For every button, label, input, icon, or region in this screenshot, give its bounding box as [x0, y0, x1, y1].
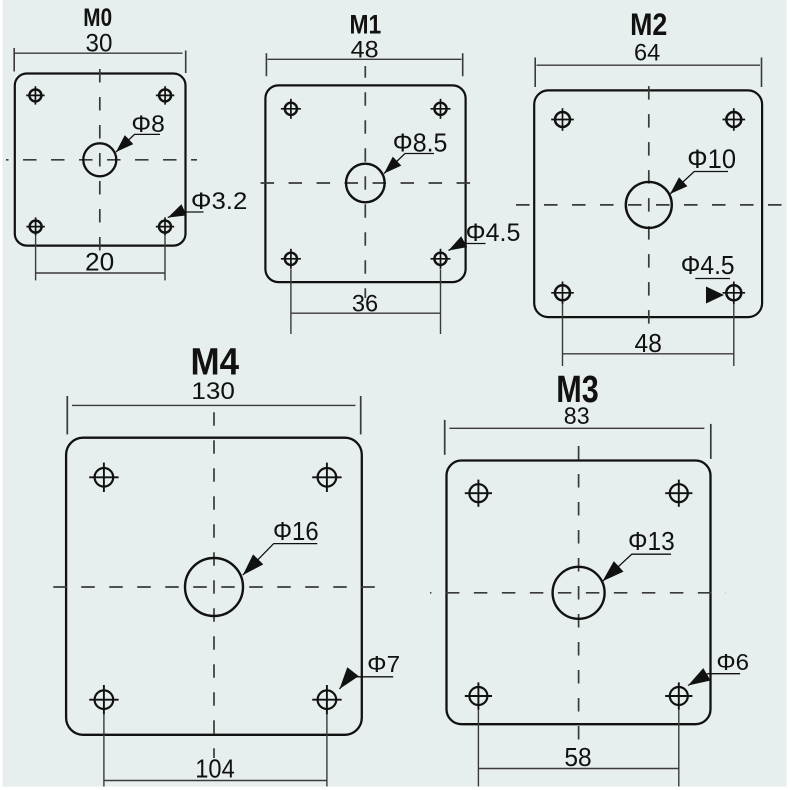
svg-text:Φ6: Φ6: [716, 649, 749, 675]
svg-text:M4: M4: [191, 342, 240, 384]
svg-text:M2: M2: [630, 6, 667, 42]
M0 top dim tick right: [185, 51, 187, 74]
M0 center hole phi8: [83, 143, 116, 176]
svg-text:Φ10: Φ10: [687, 144, 736, 174]
M1 top dimension line 48: [268, 58, 462, 60]
svg-text:M0: M0: [83, 4, 112, 32]
svg-text:Φ16: Φ16: [273, 518, 319, 546]
M4 top dim tick left: [66, 396, 68, 434]
hole M3 bottom-right: [665, 682, 692, 709]
hole M4 bottom-left: [89, 685, 118, 714]
M0 bottom ext line left: [35, 236, 37, 280]
svg-text:64: 64: [634, 40, 660, 66]
M4 top dim tick right: [360, 396, 362, 434]
M1 horizontal centerline: [252, 182, 484, 184]
M2 bottom dimension line 48: [563, 353, 734, 355]
M0 bottom ext line right: [164, 236, 166, 280]
M3 top dimension line 83: [449, 427, 704, 429]
svg-text:Φ7: Φ7: [367, 651, 400, 677]
hole M0 bottom-right: [156, 217, 174, 235]
leader phi7: [340, 677, 394, 689]
M3 top dim tick right: [710, 424, 712, 459]
leader phi13: [603, 554, 672, 581]
M4 bottom ext line right: [326, 714, 328, 786]
svg-text:83: 83: [564, 404, 590, 430]
M4 center hole phi16: [185, 558, 243, 616]
leader phi10: [670, 172, 728, 195]
M3 bottom dimension line 58: [478, 768, 678, 770]
M2 bottom ext line left: [562, 304, 564, 366]
M2 top dimension line 64: [537, 64, 761, 66]
M3 top dim tick left: [444, 420, 446, 455]
plate M2 outline: [534, 90, 762, 317]
M2 top dim tick left: [534, 58, 536, 88]
hole M2 bottom-right: [723, 282, 746, 305]
hole M0 bottom-left: [26, 217, 44, 235]
M1 bottom ext line right: [440, 269, 442, 334]
svg-text:130: 130: [191, 379, 235, 405]
leader M1 phi4.5: [449, 244, 486, 251]
M3 center hole phi13: [553, 567, 605, 619]
M3 bottom ext line right: [678, 710, 680, 787]
M0 top dim tick left: [13, 48, 15, 72]
svg-text:M1: M1: [350, 9, 382, 39]
hole M4 top-left: [89, 463, 118, 492]
hole M4 top-right: [312, 463, 341, 492]
leader phi16: [243, 544, 317, 576]
plate M1 outline: [265, 85, 465, 282]
hole M1 bottom-left: [281, 249, 301, 269]
hole M0 top-left: [26, 86, 44, 104]
M4 bottom ext line left: [103, 714, 105, 786]
plate M0 outline: [15, 74, 186, 246]
leader phi6: [688, 674, 740, 686]
M3 bottom ext line left: [477, 710, 479, 787]
hole M2 bottom-left: [551, 282, 574, 305]
leader phi3.2: [168, 212, 204, 218]
M1 top dim tick right: [462, 53, 464, 76]
hole M1 bottom-right: [431, 249, 451, 269]
leader phi8: [116, 134, 160, 152]
M3 vertical centerline: [578, 439, 580, 746]
M2 phi4.5 arrow: [706, 287, 724, 304]
plate M3 outline: [447, 461, 711, 725]
M2 horizontal centerline: [508, 204, 783, 206]
M1 top dim tick left: [265, 53, 267, 76]
svg-text:Φ3.2: Φ3.2: [191, 188, 247, 215]
M1 bottom dimension line 36: [291, 312, 441, 314]
M2 center hole phi10: [626, 182, 672, 228]
M0 vertical centerline: [99, 56, 101, 258]
M0 bottom dimension line 20: [36, 272, 165, 274]
M2 vertical centerline: [648, 75, 650, 334]
M1 vertical centerline: [364, 66, 366, 298]
M2 top dim tick right: [761, 58, 763, 88]
hole M4 bottom-right: [312, 685, 341, 714]
M0 top dimension line 30: [15, 52, 183, 54]
hole M0 top-right: [156, 86, 174, 104]
hole M3 bottom-left: [465, 682, 492, 709]
M4 top dimension line 130: [72, 404, 356, 406]
M3 horizontal centerline: [430, 592, 726, 594]
M1 center hole phi8.5: [346, 164, 385, 203]
M1 bottom ext line left: [290, 269, 292, 334]
M0 horizontal centerline: [6, 159, 197, 161]
M2 bottom ext line right: [733, 304, 735, 366]
M4 vertical centerline: [213, 412, 215, 758]
M4 bottom dimension line 104: [104, 780, 327, 782]
svg-text:58: 58: [564, 744, 591, 772]
hole M2 top-right: [723, 108, 746, 131]
svg-text:104: 104: [195, 756, 235, 784]
hole M3 top-left: [465, 480, 492, 507]
hole M3 top-right: [665, 480, 692, 507]
hole M1 top-left: [281, 99, 301, 119]
svg-text:Φ13: Φ13: [628, 528, 675, 556]
leader phi8.5: [384, 154, 434, 174]
svg-text:Φ4.5: Φ4.5: [681, 250, 735, 280]
M4 horizontal centerline: [48, 586, 381, 588]
M2 phi4.5 underline: [695, 278, 730, 280]
hole M1 top-right: [431, 99, 451, 119]
hole M2 top-left: [551, 108, 574, 131]
plate M4 outline: [66, 438, 362, 735]
